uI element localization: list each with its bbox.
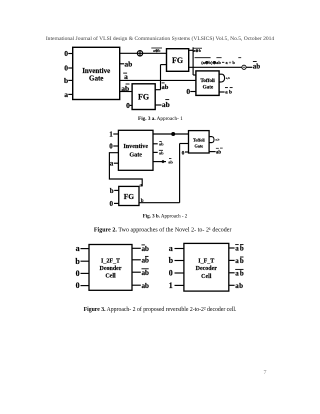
svg-text:Deonder: Deonder <box>100 266 122 272</box>
svg-text:0: 0 <box>186 87 190 96</box>
svg-text:ab: ab <box>162 84 169 91</box>
svg-text:a: a <box>64 90 68 99</box>
svg-text:ab: ab <box>121 84 129 93</box>
svg-text:FG: FG <box>172 56 183 65</box>
svg-text:(a⊕b)⊕ab = a + b: (a⊕b)⊕ab = a + b <box>201 60 235 65</box>
svg-text:FG: FG <box>138 93 149 102</box>
svg-text:ab: ab <box>168 160 173 165</box>
svg-text:Fig. 3 a. Approach- 1: Fig. 3 a. Approach- 1 <box>138 116 183 122</box>
svg-text:ab: ab <box>235 269 245 277</box>
svg-text:a⊕b: a⊕b <box>193 48 202 53</box>
svg-text:I_F_T: I_F_T <box>198 258 214 264</box>
svg-text:b: b <box>64 76 68 85</box>
svg-text:ab: ab <box>142 245 150 253</box>
svg-text:b: b <box>75 257 80 266</box>
svg-text:a,b: a,b <box>215 138 219 142</box>
svg-text:0: 0 <box>64 49 68 58</box>
svg-text:ab: ab <box>159 151 164 156</box>
svg-text:a b: a b <box>225 90 232 96</box>
svg-text:Toffoli: Toffoli <box>200 78 215 84</box>
svg-text:0: 0 <box>76 269 80 278</box>
svg-text:Gate: Gate <box>129 151 142 158</box>
svg-text:b: b <box>169 256 174 265</box>
svg-text:ab: ab <box>159 142 164 147</box>
svg-text:I_2F_T: I_2F_T <box>101 258 120 264</box>
svg-text:ab: ab <box>142 269 150 277</box>
svg-text:a⊕b: a⊕b <box>153 49 160 53</box>
svg-text:a: a <box>76 244 80 253</box>
svg-text:a: a <box>169 244 173 253</box>
svg-text:Cell: Cell <box>105 274 116 280</box>
svg-text:b: b <box>141 199 144 204</box>
svg-text:1: 1 <box>169 281 173 290</box>
svg-text:1: 1 <box>109 131 113 139</box>
svg-text:ab: ab <box>124 59 132 68</box>
svg-text:ab: ab <box>142 256 150 264</box>
svg-text:0: 0 <box>109 143 113 151</box>
svg-text:Figure 2. Two approaches of th: Figure 2. Two approaches of the Novel 2-… <box>94 226 232 233</box>
svg-text:0: 0 <box>169 269 173 278</box>
svg-text:Gate: Gate <box>194 144 203 149</box>
svg-text:a,b: a,b <box>226 76 230 80</box>
svg-text:ab: ab <box>235 257 245 265</box>
svg-text:a: a <box>139 182 142 188</box>
svg-text:Inventive: Inventive <box>123 143 148 150</box>
svg-text:Toffoli: Toffoli <box>193 137 206 142</box>
svg-text:ab: ab <box>235 282 243 290</box>
svg-text:Gate: Gate <box>89 75 103 83</box>
svg-text:7: 7 <box>264 370 267 376</box>
svg-text:ab: ab <box>253 63 261 71</box>
svg-text:0: 0 <box>126 101 130 110</box>
svg-text:0: 0 <box>182 150 185 156</box>
svg-text:0: 0 <box>64 64 68 73</box>
svg-text:ab: ab <box>216 150 222 155</box>
svg-text:International Journal of VLSI: International Journal of VLSI design & C… <box>46 35 275 42</box>
svg-text:Cell: Cell <box>201 274 212 280</box>
svg-text:0: 0 <box>110 200 114 208</box>
svg-text:a: a <box>110 160 114 168</box>
svg-text:Figure 3. Approach- 2 of propo: Figure 3. Approach- 2 of proposed revers… <box>84 306 237 313</box>
svg-text:ab: ab <box>162 100 170 109</box>
svg-text:FG: FG <box>124 192 135 201</box>
svg-text:Decoder: Decoder <box>196 266 218 272</box>
svg-text:Fig. 3 b. Approach - 2: Fig. 3 b. Approach - 2 <box>143 215 188 220</box>
svg-text:ab: ab <box>142 282 150 290</box>
svg-text:0: 0 <box>76 281 80 290</box>
svg-text:ab: ab <box>235 245 245 253</box>
svg-text:a: a <box>124 72 128 81</box>
svg-text:Gate: Gate <box>203 85 214 91</box>
svg-text:b: b <box>110 187 114 195</box>
